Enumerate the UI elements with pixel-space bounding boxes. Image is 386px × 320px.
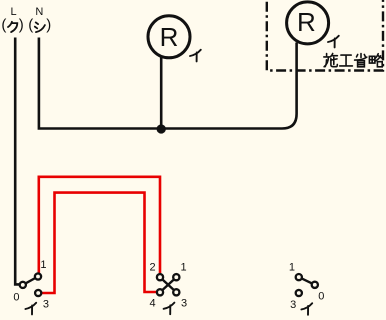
terminal 1 — [296, 274, 302, 280]
dash-dot outline box (施工省略 area) — [267, 0, 383, 71]
svg-text:2: 2 — [149, 262, 155, 274]
wire: L conductor down to switch 0 — [15, 38, 19, 285]
svg-text:R: R — [160, 22, 179, 52]
svg-text:1: 1 — [40, 259, 46, 271]
wire: N conductor down, across, up to right lamp — [39, 38, 297, 129]
svg-text:4: 4 — [149, 298, 155, 310]
terminal 3 — [296, 290, 302, 296]
svg-text:): ) — [19, 17, 24, 34]
svg-text:1: 1 — [289, 261, 295, 273]
terminal 3 — [173, 289, 179, 295]
lamp R (イ) left — [148, 16, 190, 58]
wire: left lamp drop to junction — [160, 57, 163, 130]
svg-text:3: 3 — [181, 298, 187, 310]
red wire: outer loop (switch イ terminal1 to 4-way terminal2) — [39, 177, 160, 273]
svg-text:N: N — [35, 6, 43, 18]
terminal 1 — [173, 274, 179, 280]
blade 0-1 — [23, 277, 38, 285]
svg-text:(: ( — [1, 17, 6, 34]
red wire: inner loop (switch イ terminal3 to 4-way terminal4) — [40, 193, 157, 293]
label イ (right 3-way switch) — [301, 303, 312, 315]
terminal 0 — [312, 282, 318, 288]
svg-text:0: 0 — [13, 292, 19, 304]
略 — [369, 54, 382, 67]
terminal 3 — [35, 290, 41, 296]
cross links — [160, 277, 176, 292]
svg-text:(: ( — [28, 17, 33, 34]
terminal 0 — [20, 282, 26, 288]
svg-text:3: 3 — [290, 299, 296, 311]
terminal 4 — [157, 289, 163, 295]
lamp R (イ) right, in omitted box — [287, 2, 329, 44]
label イ (left lamp) — [190, 50, 201, 62]
省 — [355, 54, 367, 67]
svg-text:R: R — [297, 7, 316, 37]
terminal 2 — [157, 274, 163, 280]
label イ (right lamp) — [328, 36, 339, 48]
svg-text:1: 1 — [180, 262, 186, 274]
svg-text:0: 0 — [318, 290, 324, 302]
svg-text:L: L — [10, 6, 16, 18]
svg-text:3: 3 — [43, 298, 49, 310]
terminal 1 — [35, 273, 41, 279]
blade 1-0 — [299, 277, 315, 285]
label 施工省略 — [324, 54, 383, 67]
施 — [324, 54, 338, 67]
svg-text:): ) — [46, 17, 51, 34]
工 — [340, 55, 353, 66]
junction node — [157, 124, 166, 133]
label イ (left 3-way switch) — [25, 303, 36, 315]
label イ (4-way switch) — [164, 303, 175, 315]
